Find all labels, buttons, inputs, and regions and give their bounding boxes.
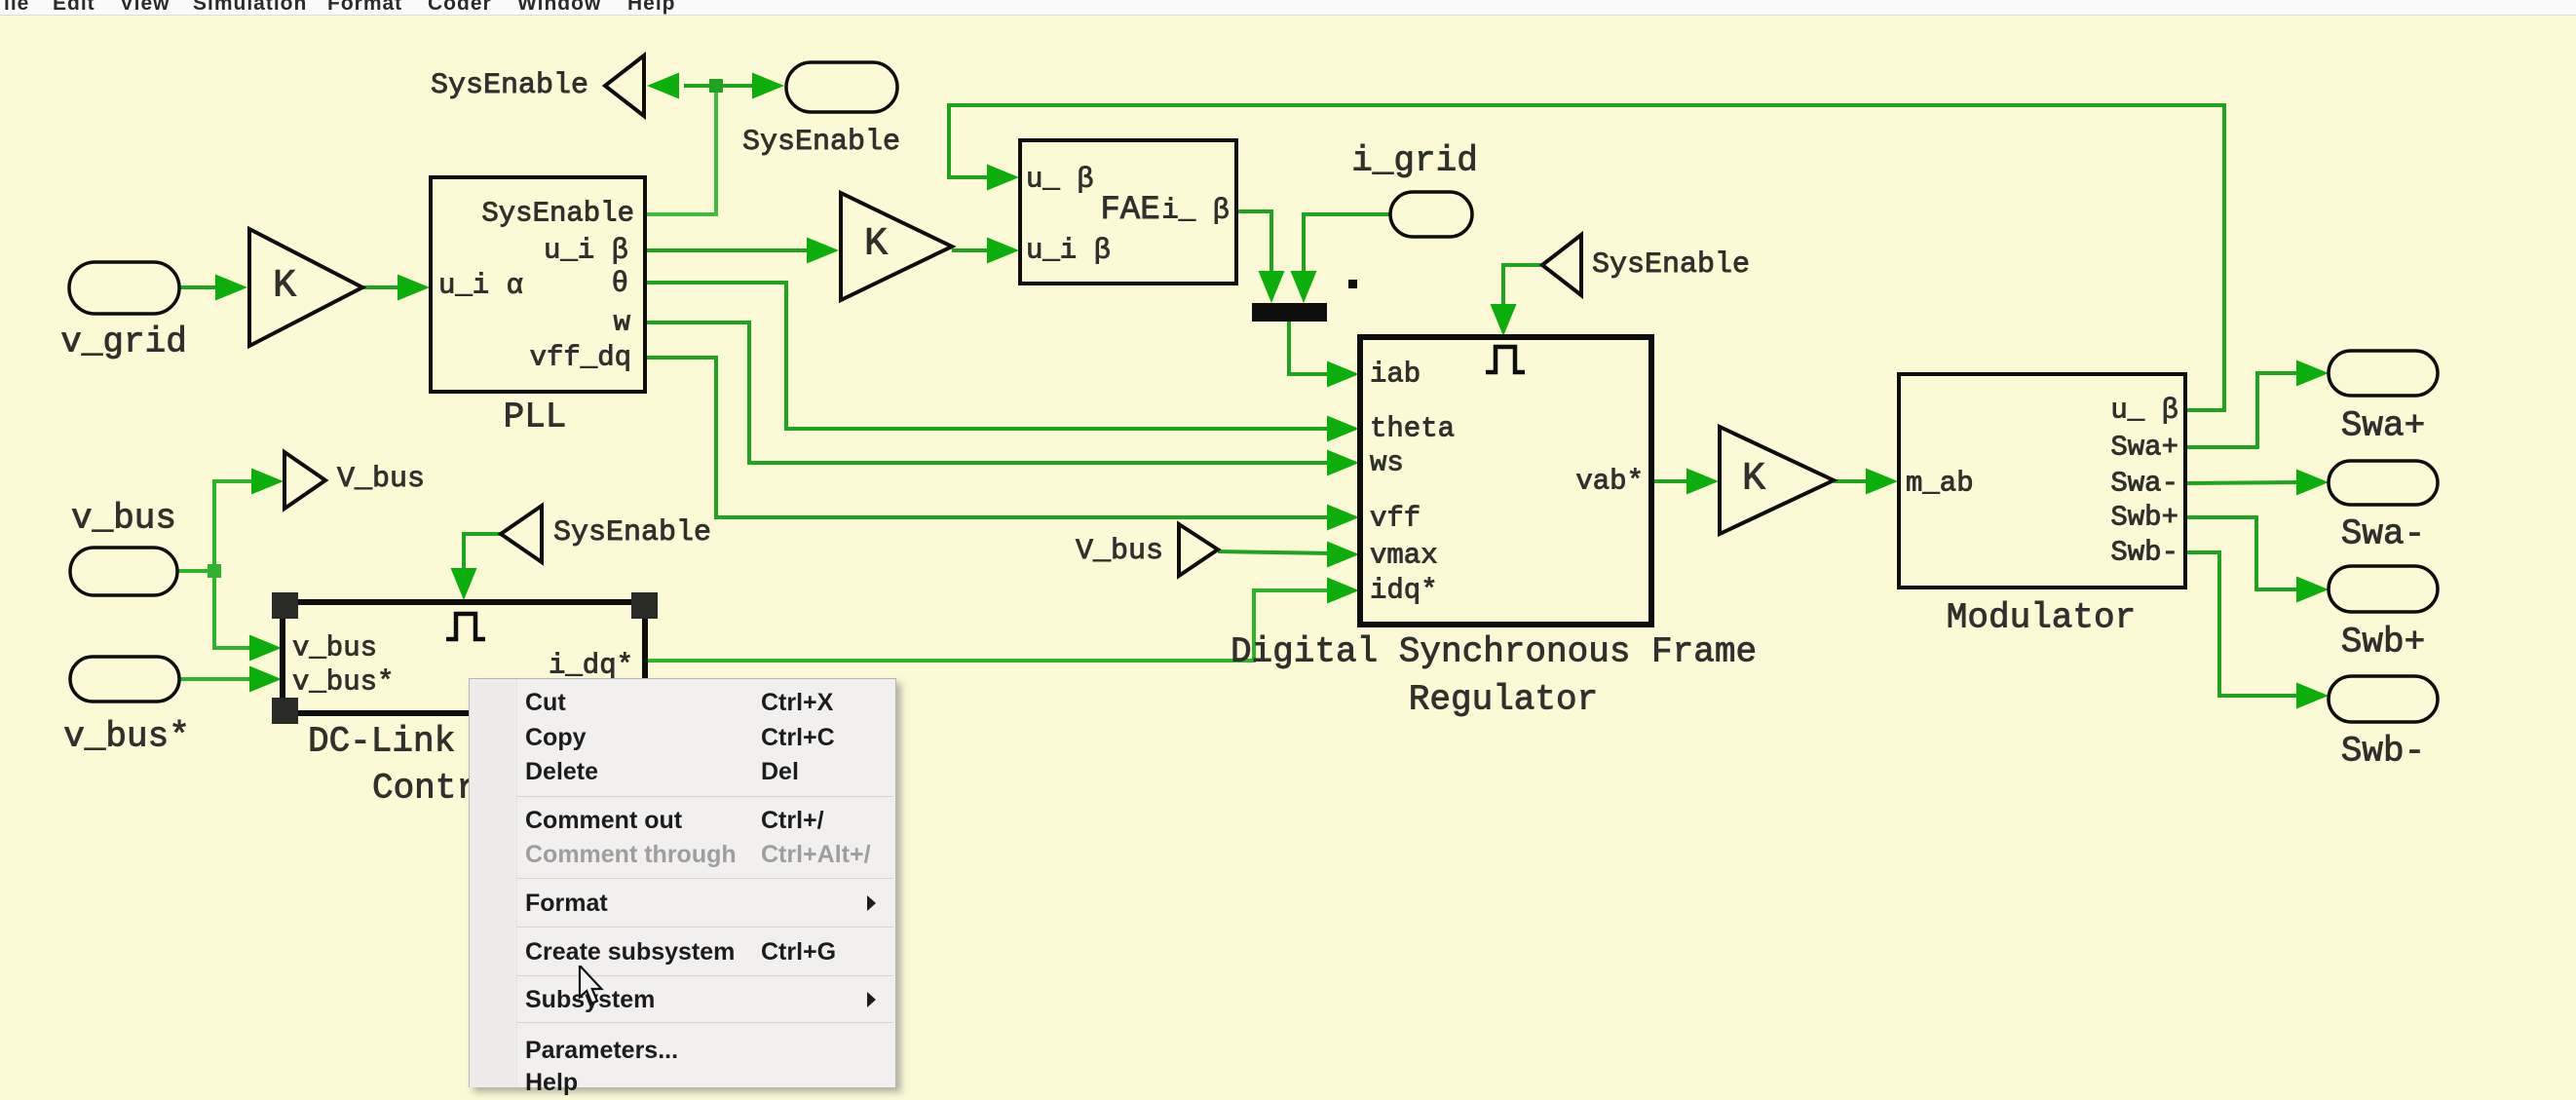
svg-text:iab: iab	[1370, 359, 1421, 391]
svg-text:K: K	[273, 265, 296, 309]
svg-text:i_ β: i_ β	[1161, 195, 1230, 227]
svg-text:Swa+: Swa+	[2341, 406, 2425, 446]
svg-text:PLL: PLL	[504, 398, 567, 437]
svg-text:FAE: FAE	[1100, 192, 1159, 229]
svg-text:v_bus: v_bus	[292, 632, 377, 664]
svg-text:Modulator: Modulator	[1947, 598, 2136, 638]
svg-text:V_bus: V_bus	[337, 463, 425, 496]
svg-text:i_dq*: i_dq*	[549, 650, 633, 682]
svg-text:SysEnable: SysEnable	[742, 126, 900, 159]
svg-text:K: K	[864, 223, 888, 267]
svg-text:Swb+: Swb+	[2341, 623, 2425, 663]
svg-text:Swb+: Swb+	[2110, 502, 2178, 534]
svg-text:u_i α: u_i α	[438, 270, 523, 302]
svg-text:u_i β: u_i β	[1026, 235, 1111, 267]
svg-text:m_ab: m_ab	[1906, 468, 1974, 500]
svg-text:ws: ws	[1370, 447, 1404, 479]
svg-text:Swa+: Swa+	[2110, 432, 2178, 464]
svg-text:SysEnable: SysEnable	[1592, 248, 1750, 282]
svg-text:V_bus: V_bus	[1076, 535, 1163, 568]
svg-text:Swb-: Swb-	[2341, 732, 2425, 772]
svg-text:v_grid: v_grid	[60, 322, 187, 362]
svg-text:SysEnable: SysEnable	[553, 516, 711, 550]
svg-text:w: w	[614, 307, 631, 339]
svg-text:u_ β: u_ β	[1026, 164, 1094, 196]
svg-text:v_bus*: v_bus*	[63, 717, 190, 757]
svg-text:SysEnable: SysEnable	[431, 69, 588, 102]
svg-text:Swa-: Swa-	[2110, 468, 2178, 500]
svg-text:Regulator: Regulator	[1409, 680, 1598, 720]
svg-text:vff: vff	[1370, 503, 1421, 535]
svg-text:vab*: vab*	[1575, 466, 1644, 498]
svg-text:Digital Synchronous Frame: Digital Synchronous Frame	[1231, 632, 1757, 672]
svg-text:i_grid: i_grid	[1351, 141, 1478, 181]
svg-text:u_i β: u_i β	[544, 235, 628, 267]
svg-text:θ: θ	[612, 268, 628, 300]
svg-text:u_ β: u_ β	[2110, 395, 2178, 427]
svg-text:K: K	[1742, 458, 1765, 502]
svg-text:Swb-: Swb-	[2110, 537, 2178, 569]
svg-text:v_bus: v_bus	[71, 499, 176, 539]
svg-text:idq*: idq*	[1370, 575, 1438, 607]
svg-text:theta: theta	[1370, 413, 1455, 445]
svg-text:Swa-: Swa-	[2341, 514, 2425, 554]
svg-text:SysEnable: SysEnable	[481, 198, 634, 230]
svg-text:vff_dq: vff_dq	[530, 342, 631, 374]
svg-text:v_bus*: v_bus*	[292, 666, 394, 699]
svg-text:vmax: vmax	[1370, 540, 1438, 572]
